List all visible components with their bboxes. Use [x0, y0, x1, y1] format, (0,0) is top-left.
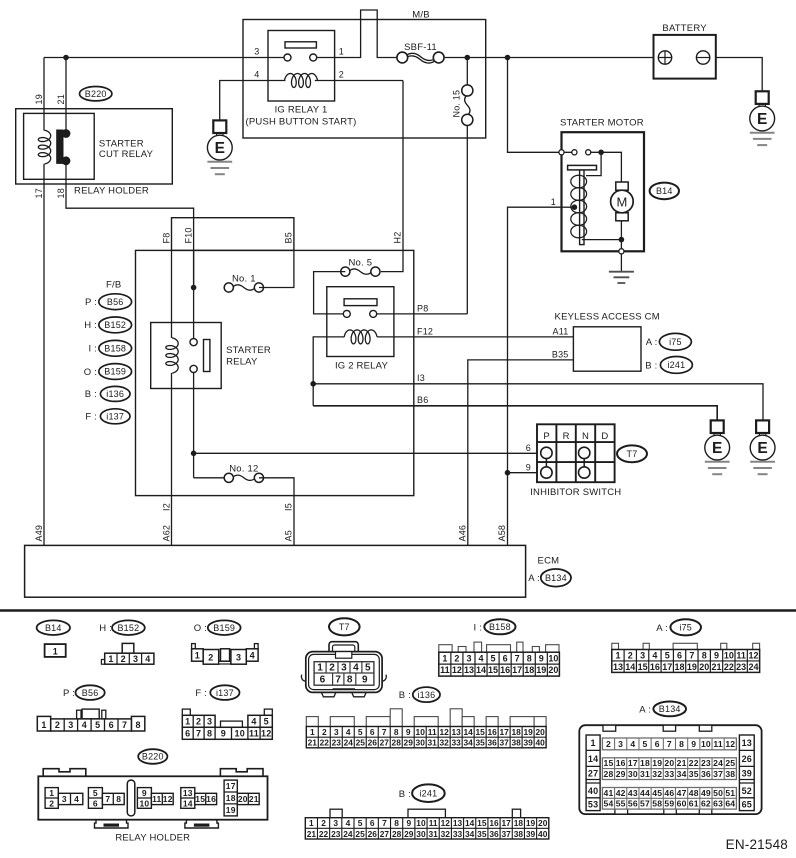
connector B158 top bumps — [439, 642, 559, 652]
svg-text:10: 10 — [724, 650, 734, 660]
wire: B6 run to ground E left — [313, 406, 717, 421]
coil: IG2 relay coil — [344, 330, 377, 344]
svg-text:i75: i75 — [669, 337, 682, 347]
svg-text:B35: B35 — [552, 349, 569, 359]
svg-text:51: 51 — [725, 788, 735, 798]
svg-text:3: 3 — [254, 46, 259, 56]
svg-text:A :: A : — [639, 704, 651, 715]
wire: pin18 run down and right to F10 — [66, 163, 194, 288]
svg-text:63: 63 — [713, 799, 723, 809]
svg-text:E: E — [712, 440, 722, 457]
svg-text:1: 1 — [590, 738, 595, 748]
svg-text:18: 18 — [640, 758, 650, 768]
svg-text:3: 3 — [334, 727, 339, 737]
svg-text:31: 31 — [428, 829, 438, 839]
svg-text:2: 2 — [321, 818, 326, 828]
svg-text:No. 1: No. 1 — [232, 273, 256, 284]
connector B134 right column pins — [739, 735, 754, 811]
battery positive terminal — [658, 51, 671, 64]
svg-text:4: 4 — [82, 720, 87, 730]
svg-text:16: 16 — [500, 665, 510, 675]
svg-text:4: 4 — [74, 794, 79, 804]
svg-text:7: 7 — [105, 794, 110, 804]
wire: battery feed down to starter motor contact — [508, 58, 560, 153]
svg-text:B5: B5 — [284, 232, 294, 243]
node: solenoid pin1 junction — [572, 204, 578, 210]
svg-text:45: 45 — [652, 788, 662, 798]
svg-text:8: 8 — [394, 727, 399, 737]
svg-text:i241: i241 — [419, 788, 437, 798]
svg-text:F10: F10 — [183, 227, 193, 243]
svg-text:9: 9 — [406, 818, 411, 828]
wire: battery negative to ground — [716, 58, 762, 92]
svg-text:27: 27 — [380, 738, 390, 748]
svg-text:B14: B14 — [656, 186, 673, 196]
connector B159 cells — [192, 644, 259, 665]
starter solenoid plunger bar — [580, 170, 584, 245]
svg-text:17: 17 — [512, 665, 522, 675]
battery negative terminal — [696, 51, 709, 64]
svg-text:STARTER: STARTER — [99, 138, 144, 149]
svg-text:11: 11 — [713, 739, 723, 749]
battery box — [654, 35, 716, 79]
svg-text:20: 20 — [535, 727, 545, 737]
relay IG RELAY 1 contact terminal pin3 — [284, 54, 291, 61]
connector ref B14 — [650, 183, 679, 200]
svg-text:4: 4 — [145, 654, 150, 664]
svg-text:47: 47 — [677, 788, 687, 798]
svg-text:28: 28 — [392, 829, 402, 839]
svg-text:19: 19 — [34, 94, 44, 104]
svg-text:12: 12 — [163, 794, 173, 804]
svg-text:12: 12 — [748, 650, 758, 660]
svg-text:5: 5 — [643, 739, 648, 749]
svg-text:24: 24 — [713, 758, 723, 768]
svg-text:A49: A49 — [34, 525, 44, 542]
svg-text:A :: A : — [656, 623, 668, 634]
relay holder connector cells group 5-8 — [88, 788, 124, 809]
svg-text:13: 13 — [183, 788, 193, 798]
node: starter motor bottom junction — [619, 237, 625, 243]
svg-text:23: 23 — [331, 829, 341, 839]
svg-text:10: 10 — [416, 818, 426, 828]
svg-text:1: 1 — [310, 727, 315, 737]
svg-text:6: 6 — [320, 674, 326, 685]
svg-text:17: 17 — [499, 727, 509, 737]
starter relay box — [151, 323, 222, 389]
svg-text:i136: i136 — [417, 690, 435, 700]
relay holder connector cells group 13-16 — [181, 788, 217, 809]
svg-text:4: 4 — [250, 650, 255, 660]
svg-text:H2: H2 — [393, 232, 403, 244]
svg-text:8: 8 — [394, 818, 399, 828]
svg-text:40: 40 — [588, 786, 598, 796]
svg-text:38: 38 — [514, 829, 524, 839]
svg-text:E: E — [757, 440, 767, 457]
svg-text:3: 3 — [62, 794, 67, 804]
svg-text:7: 7 — [515, 653, 520, 663]
svg-text:19: 19 — [226, 805, 236, 815]
wire: elbow to No.12 — [194, 477, 224, 479]
wire: IG relay pin1 to M/B tab and to SBF-11 — [317, 10, 397, 58]
starter relay contact lower terminal — [190, 365, 197, 372]
wire: bus to battery — [445, 57, 654, 59]
svg-text:6: 6 — [526, 443, 531, 453]
keyless access CM box — [573, 327, 641, 371]
svg-text:6: 6 — [503, 653, 508, 663]
svg-text:i137: i137 — [106, 412, 124, 422]
svg-text:7: 7 — [689, 650, 694, 660]
svg-text:2: 2 — [196, 716, 201, 726]
svg-text:55: 55 — [616, 799, 626, 809]
svg-text:6: 6 — [677, 650, 682, 660]
svg-text:1: 1 — [41, 720, 46, 730]
svg-text:5: 5 — [365, 663, 371, 674]
svg-text:32: 32 — [441, 829, 451, 839]
svg-text:B152: B152 — [117, 623, 139, 633]
svg-text:5: 5 — [93, 788, 98, 798]
svg-text:54: 54 — [604, 799, 614, 809]
wire: F12/A11 from IG2 coil to keyless access CM — [377, 336, 574, 338]
svg-text:24: 24 — [748, 662, 758, 672]
connector T7 pin grid — [314, 662, 374, 686]
svg-text:48: 48 — [689, 788, 699, 798]
svg-text:No. 12: No. 12 — [229, 464, 258, 475]
svg-text:21: 21 — [308, 738, 318, 748]
svg-text:18: 18 — [514, 818, 524, 828]
svg-text:35: 35 — [689, 769, 699, 779]
wire: pin1 into solenoid — [562, 206, 575, 208]
ground E left of pair (B6) — [705, 420, 730, 474]
connector ref list H: B152 — [84, 320, 97, 331]
svg-text:A46: A46 — [458, 525, 468, 542]
svg-text:B158: B158 — [489, 622, 511, 632]
svg-text:30: 30 — [416, 829, 426, 839]
relay holder outer box — [16, 109, 173, 184]
svg-text:52: 52 — [742, 786, 752, 796]
connector ref list I: B158 — [88, 344, 97, 355]
svg-text:10: 10 — [548, 653, 558, 663]
relay U1 IG RELAY 1 box — [268, 31, 335, 102]
svg-text:23: 23 — [736, 662, 746, 672]
svg-text:11: 11 — [428, 727, 437, 737]
connector B: i241 ref — [399, 789, 411, 800]
svg-text:B :: B : — [399, 789, 411, 800]
svg-text:9: 9 — [714, 650, 719, 660]
svg-text:39: 39 — [742, 769, 752, 779]
svg-text:19: 19 — [523, 727, 533, 737]
M/B fuse box outline — [243, 20, 486, 139]
svg-text:44: 44 — [640, 788, 650, 798]
svg-text:B14: B14 — [45, 623, 62, 633]
svg-text:50: 50 — [713, 788, 723, 798]
svg-text:B220: B220 — [142, 752, 164, 762]
svg-text:58: 58 — [652, 799, 662, 809]
svg-text:O :: O : — [84, 367, 97, 378]
svg-text:T7: T7 — [627, 449, 638, 459]
svg-text:5: 5 — [358, 818, 363, 828]
connector B134 housing — [579, 725, 761, 814]
svg-text:34: 34 — [677, 769, 687, 779]
svg-text:15: 15 — [477, 818, 487, 828]
svg-text:18: 18 — [511, 727, 521, 737]
svg-text:2: 2 — [208, 653, 213, 663]
svg-text:i241: i241 — [667, 360, 685, 370]
svg-text:B134: B134 — [659, 704, 681, 714]
node: junction inhibitor pin 9 on A58 line — [505, 470, 511, 476]
svg-text:20: 20 — [664, 758, 674, 768]
svg-text:F :: F : — [85, 412, 97, 423]
wire: pin19 vertical drop to starter cut relay coil — [43, 58, 45, 131]
svg-text:R: R — [563, 431, 570, 442]
svg-text:2: 2 — [339, 70, 344, 80]
connector ref list O: B159 — [84, 367, 97, 378]
svg-text:14: 14 — [625, 662, 635, 672]
svg-text:18: 18 — [56, 188, 66, 198]
svg-text:A11: A11 — [553, 326, 569, 336]
connector T7 housing — [301, 642, 386, 697]
wire: No.1 to B5 — [259, 250, 294, 287]
svg-text:36: 36 — [489, 829, 499, 839]
svg-text:1: 1 — [108, 654, 113, 664]
svg-text:60: 60 — [677, 799, 687, 809]
svg-text:41: 41 — [604, 788, 614, 798]
F/B fuse box outline — [136, 250, 414, 495]
svg-text:15: 15 — [488, 665, 498, 675]
svg-text:1: 1 — [339, 46, 344, 56]
svg-text:I5: I5 — [284, 503, 294, 511]
svg-text:STARTER: STARTER — [226, 345, 271, 356]
svg-text:13: 13 — [453, 818, 463, 828]
wire: IG2 coil left lead down to B6 — [313, 337, 344, 406]
svg-text:A5: A5 — [284, 530, 294, 541]
svg-text:19: 19 — [526, 818, 536, 828]
connector B152 cells — [105, 653, 154, 664]
wire: No.15 to P8 row — [466, 125, 468, 314]
svg-text:17: 17 — [628, 758, 638, 768]
svg-text:33: 33 — [452, 738, 462, 748]
node: junction battery bus / pin21 — [63, 55, 69, 61]
svg-text:B56: B56 — [107, 297, 124, 307]
svg-text:E: E — [215, 140, 225, 157]
starter motor contact circle 3 — [586, 150, 591, 155]
svg-text:F/B: F/B — [106, 280, 121, 291]
svg-text:9: 9 — [142, 788, 147, 798]
connector ref list P: B56 — [85, 297, 97, 308]
svg-text:57: 57 — [640, 799, 650, 809]
connector ref T7 — [617, 445, 647, 462]
svg-text:1: 1 — [442, 653, 447, 663]
svg-text:No. 15: No. 15 — [452, 90, 462, 118]
svg-text:4: 4 — [630, 739, 635, 749]
svg-text:16: 16 — [650, 662, 660, 672]
svg-text:1: 1 — [195, 650, 200, 660]
svg-text:7: 7 — [196, 728, 201, 738]
wire: F10 line pinbox to starter relay contact — [193, 250, 195, 339]
wire: No.12 to I5/A5 down to ECM — [259, 478, 294, 546]
starter relay contact upper terminal — [190, 339, 197, 346]
svg-text:INHIBITOR SWITCH: INHIBITOR SWITCH — [530, 487, 621, 498]
connector i241 top bumps — [330, 809, 521, 818]
connector B220 ref oval — [138, 749, 167, 764]
svg-text:23: 23 — [332, 738, 342, 748]
svg-text:17: 17 — [226, 781, 236, 791]
svg-text:9: 9 — [406, 727, 411, 737]
svg-text:13: 13 — [464, 665, 474, 675]
svg-text:7: 7 — [382, 727, 387, 737]
coil: starter relay coil — [166, 338, 178, 373]
svg-text:P8: P8 — [417, 303, 428, 313]
relay holder connector cells group 1-4 — [45, 788, 83, 809]
svg-text:F12: F12 — [417, 326, 433, 336]
IG2 relay contact bar — [344, 299, 377, 306]
IG2 relay contact terminal right — [370, 310, 377, 317]
svg-text:I :: I : — [88, 344, 97, 355]
svg-text:RELAY HOLDER: RELAY HOLDER — [115, 833, 190, 844]
svg-text:20: 20 — [238, 794, 248, 804]
svg-text:IG 2 RELAY: IG 2 RELAY — [335, 361, 389, 372]
svg-text:25: 25 — [356, 738, 366, 748]
svg-text:3: 3 — [618, 739, 623, 749]
inhibitor switch grid — [537, 424, 615, 482]
connector B134 middle row 2-12 — [602, 738, 736, 750]
svg-text:14: 14 — [183, 798, 193, 808]
wire: pin17 / A49 vertical run down to ECM — [43, 164, 45, 546]
svg-text:11: 11 — [736, 650, 746, 660]
svg-text:B158: B158 — [104, 344, 126, 354]
svg-text:29: 29 — [404, 829, 414, 839]
svg-text:3: 3 — [466, 653, 471, 663]
connector i75 pin grid — [612, 650, 760, 673]
svg-text:20: 20 — [538, 818, 548, 828]
svg-text:2: 2 — [454, 653, 459, 663]
svg-text:23: 23 — [701, 758, 711, 768]
wire: starter motor pin1 down to A58 line — [508, 207, 562, 545]
wire: starter relay lower contact down — [193, 372, 195, 478]
connector O: B159 ref — [194, 623, 207, 634]
starter motor contact circle 2 — [572, 150, 577, 155]
wire: P8 from IG2 contact to No.15 line — [377, 313, 468, 315]
svg-text:12: 12 — [725, 739, 735, 749]
label IG RELAY 1 (PUSH BUTTON START) — [246, 105, 357, 128]
svg-text:B134: B134 — [545, 573, 567, 583]
svg-text:9: 9 — [362, 674, 368, 685]
wire: IG relay coil pin2 lead — [315, 80, 403, 82]
ECM connector ref A: B134 — [528, 573, 540, 584]
svg-text:21: 21 — [677, 758, 687, 768]
svg-text:11: 11 — [429, 818, 438, 828]
svg-text:I :: I : — [473, 622, 482, 633]
connector ref A: i75 — [646, 337, 658, 348]
svg-text:6: 6 — [370, 727, 375, 737]
svg-text:34: 34 — [465, 829, 475, 839]
svg-text:7: 7 — [122, 720, 127, 730]
connector T7 ref oval — [329, 618, 360, 635]
svg-text:9: 9 — [539, 653, 544, 663]
svg-text:2: 2 — [606, 739, 611, 749]
svg-text:8: 8 — [702, 650, 707, 660]
separator line — [0, 609, 796, 612]
svg-text:3: 3 — [207, 716, 212, 726]
starter motor ground terminal circle — [619, 249, 624, 254]
svg-text:5: 5 — [491, 653, 496, 663]
svg-text:39: 39 — [526, 829, 536, 839]
node: junction SBF-11 / No.15 — [465, 55, 471, 61]
IG2 relay contact terminal left — [343, 310, 350, 317]
svg-text:3: 3 — [236, 653, 241, 663]
svg-text:4: 4 — [652, 650, 657, 660]
svg-text:10: 10 — [139, 798, 149, 808]
svg-text:10: 10 — [701, 739, 711, 749]
fuse No. 1 — [224, 283, 263, 292]
svg-text:53: 53 — [588, 800, 598, 810]
inhibitor switch N contacts — [579, 447, 590, 478]
wire: pin21 vertical drop to starter cut relay contact — [65, 58, 67, 132]
connector B158 pin grid — [439, 652, 560, 676]
fuse No. 12 — [224, 473, 263, 482]
svg-text:STARTER MOTOR: STARTER MOTOR — [560, 118, 644, 129]
connector B134 middle rows 15-38 — [602, 758, 736, 780]
svg-text:H :: H : — [84, 320, 97, 331]
svg-text:4: 4 — [346, 727, 351, 737]
svg-text:SBF-11: SBF-11 — [404, 42, 437, 53]
contact: starter cut relay contact bar — [56, 129, 70, 165]
svg-text:B :: B : — [645, 360, 657, 371]
svg-text:7: 7 — [335, 674, 341, 685]
svg-text:6: 6 — [93, 798, 98, 808]
svg-text:26: 26 — [742, 754, 752, 764]
svg-text:28: 28 — [392, 738, 402, 748]
svg-text:31: 31 — [428, 738, 438, 748]
svg-text:16: 16 — [489, 818, 499, 828]
connector B152 top bump — [122, 643, 134, 653]
node: junction I3 — [310, 381, 316, 387]
svg-text:21: 21 — [56, 94, 66, 104]
starter cut relay inner box — [24, 113, 95, 179]
svg-text:8: 8 — [347, 674, 353, 685]
coil: starter cut relay coil — [38, 130, 50, 164]
relay holder connector housing — [38, 769, 267, 828]
connector P: B56 ref — [63, 688, 75, 699]
wire: starter relay coil to I2/A62 down to ECM — [171, 373, 173, 545]
svg-text:A58: A58 — [497, 525, 507, 542]
svg-text:22: 22 — [689, 758, 699, 768]
svg-text:36: 36 — [487, 738, 497, 748]
svg-text:B152: B152 — [104, 320, 126, 330]
svg-text:(PUSH BUTTON START): (PUSH BUTTON START) — [246, 116, 357, 127]
svg-text:CUT RELAY: CUT RELAY — [99, 149, 154, 160]
connector B56 top bumps — [77, 709, 106, 719]
wire: IG relay coil pin4 lead to ground — [220, 81, 286, 121]
connector B14 ref oval — [37, 620, 70, 635]
relay IG RELAY 1 contact bar — [285, 42, 316, 48]
svg-text:17: 17 — [502, 818, 512, 828]
wire: I3 run to ground E right — [313, 384, 763, 421]
svg-text:B :: B : — [399, 690, 411, 701]
svg-text:6: 6 — [109, 720, 114, 730]
svg-text:1: 1 — [53, 646, 58, 656]
svg-text:i75: i75 — [679, 623, 692, 633]
svg-text:33: 33 — [453, 829, 463, 839]
svg-text:62: 62 — [701, 799, 711, 809]
svg-text:5: 5 — [264, 716, 269, 726]
svg-text:4: 4 — [346, 818, 351, 828]
svg-text:18: 18 — [226, 793, 236, 803]
svg-text:IG RELAY 1: IG RELAY 1 — [275, 105, 328, 116]
svg-text:O :: O : — [194, 623, 207, 634]
svg-text:35: 35 — [475, 738, 485, 748]
connector B14 pin 1 cell — [45, 644, 66, 657]
